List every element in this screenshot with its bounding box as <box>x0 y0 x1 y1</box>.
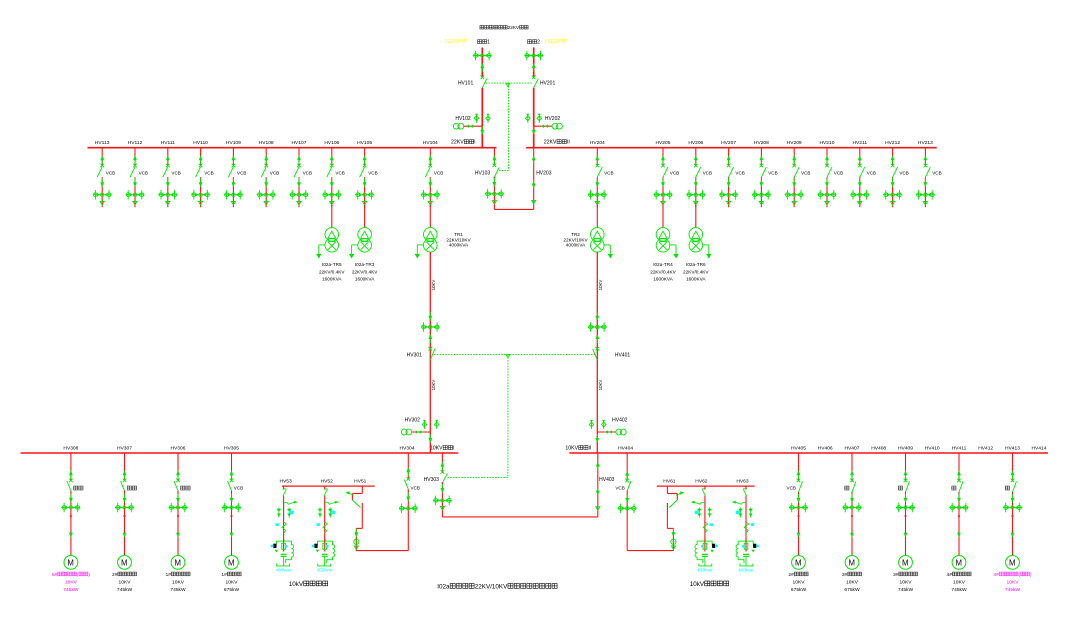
label left capacitor bank <box>289 581 328 588</box>
svg-text:VCB: VCB <box>735 171 744 176</box>
wire down to station transformer I02a-TR5 <box>331 205 333 228</box>
wire to transformer TR1 <box>429 205 431 228</box>
svg-text:HV307: HV307 <box>117 446 132 452</box>
svg-text:HV408: HV408 <box>871 446 886 452</box>
svg-text:1600KVA: 1600KVA <box>355 276 375 281</box>
svg-text:22KV/0.4KV: 22KV/0.4KV <box>319 269 345 274</box>
svg-text:TR2: TR2 <box>571 232 580 237</box>
feeder HV113 with VCB breaker <box>93 140 116 207</box>
svg-text:10kV: 10kV <box>690 581 705 588</box>
svg-text:4#: 4# <box>993 572 999 578</box>
svg-text:10KV: 10KV <box>598 280 603 291</box>
svg-text:HV105: HV105 <box>357 140 372 146</box>
open indicator X HV301 <box>429 347 433 351</box>
svg-text:HV208: HV208 <box>754 140 769 146</box>
svg-text:4000KVA: 4000KVA <box>566 243 586 248</box>
svg-text:HV113: HV113 <box>95 140 110 146</box>
wire: green dashed drop to HV303 <box>507 354 509 477</box>
svg-text:VCB: VCB <box>270 171 279 176</box>
svg-text:10KV: 10KV <box>65 579 78 585</box>
svg-text:VCB: VCB <box>899 171 908 176</box>
CT metering set HV302 <box>401 429 430 435</box>
svg-text:II: II <box>567 140 570 146</box>
svg-text:VCB: VCB <box>106 171 115 176</box>
svg-text:HV306: HV306 <box>171 446 186 452</box>
feeder HV105 with VCB breaker <box>355 140 378 207</box>
svg-text:HV410: HV410 <box>925 446 940 452</box>
svg-text:HV61: HV61 <box>663 478 676 484</box>
transformer I02a-TR4 22KV/0.4KV 1600KVA <box>650 228 678 282</box>
svg-text:VCB: VCB <box>787 486 796 491</box>
open indicator X HV401 <box>596 347 600 351</box>
svg-text:I02a-TR4: I02a-TR4 <box>653 262 673 267</box>
wire: HV304 run to left capacitor bank <box>356 550 408 552</box>
voltage indicators HV302 <box>422 420 427 429</box>
breaker HV301 <box>430 349 435 360</box>
svg-text:VCB: VCB <box>867 171 876 176</box>
svg-text:400kvar: 400kvar <box>697 568 713 573</box>
svg-text:22KV: 22KV <box>451 140 464 146</box>
22KV bus I <box>88 147 497 149</box>
svg-text:HV412: HV412 <box>978 446 993 452</box>
svg-text:745kW: 745kW <box>63 587 79 593</box>
svg-text:HV103: HV103 <box>475 171 491 177</box>
svg-text:VCB: VCB <box>204 171 213 176</box>
svg-text:HV406: HV406 <box>818 446 833 452</box>
svg-text:): ) <box>1030 572 1032 578</box>
down arrow above 10KV bus HV302 column <box>428 434 432 443</box>
disconnect cross on TR2 secondary <box>588 322 607 332</box>
svg-text:HV62: HV62 <box>695 478 708 484</box>
wire to transformer TR2 <box>596 205 598 228</box>
22KV bus II <box>526 147 937 149</box>
svg-text:I02a-TR5: I02a-TR5 <box>322 262 342 267</box>
svg-text:1#: 1# <box>165 572 171 578</box>
CT metering set HV202 <box>534 123 563 129</box>
svg-text:HV111: HV111 <box>161 140 176 146</box>
svg-text:HV411: HV411 <box>952 446 967 452</box>
svg-text:10KV: 10KV <box>431 280 436 291</box>
feeder HV206 with VCB breaker <box>686 140 712 207</box>
feeder HV111 with VCB breaker <box>158 140 181 207</box>
wire down to station transformer I02a-TR3 <box>364 205 366 228</box>
svg-text:HV109: HV109 <box>226 140 241 146</box>
svg-text:10KV: 10KV <box>172 579 185 585</box>
svg-text:22KV/10KV: 22KV/10KV <box>446 237 471 242</box>
svg-text:VCB: VCB <box>237 171 246 176</box>
svg-text:19200KW: 19200KW <box>444 39 467 45</box>
svg-text:3#: 3# <box>893 572 899 578</box>
down arrow above cross TR1 secondary <box>428 312 432 321</box>
motor feeder HV405 <box>787 446 809 594</box>
svg-text:10KV: 10KV <box>565 446 578 452</box>
svg-text:I02a-TR6: I02a-TR6 <box>686 262 706 267</box>
up arrow incoming HV101 <box>480 63 484 72</box>
title: incoming 22KV cable note <box>480 25 528 30</box>
svg-text:HV206: HV206 <box>688 140 703 146</box>
CT metering set HV402 <box>597 429 626 435</box>
wire: green dashed drop to HV103 <box>508 83 510 170</box>
PT branch HV61 <box>663 478 684 550</box>
svg-text:HV414: HV414 <box>1032 446 1047 452</box>
svg-text:2#: 2# <box>112 572 118 578</box>
svg-text:5#: 5# <box>52 572 58 578</box>
svg-text:400kvar: 400kvar <box>317 568 333 573</box>
svg-text:17200KW: 17200KW <box>544 39 567 45</box>
voltage indicators HV402 <box>589 420 594 429</box>
label 22KV bus I <box>451 140 476 146</box>
svg-text:HV104: HV104 <box>423 140 438 146</box>
motor feeder HV411 <box>946 446 971 594</box>
motor feeder HV305 <box>221 446 243 594</box>
svg-text:HV213: HV213 <box>918 140 933 146</box>
svg-text:VCB: VCB <box>171 171 180 176</box>
breaker feeder HV103 (22KV bus tie) <box>475 148 504 210</box>
transformer I02a-TR3 22KV/0.4KV 1600KVA <box>349 228 378 282</box>
motor feeder HV407 <box>842 446 862 594</box>
svg-text:22KV/0.4KV: 22KV/0.4KV <box>683 269 709 274</box>
svg-text:HV403: HV403 <box>599 477 615 483</box>
voltage indicators HV202 <box>526 114 531 123</box>
svg-text:2#: 2# <box>788 572 794 578</box>
svg-text:10KV: 10KV <box>846 579 859 585</box>
feeder HV210 with VCB breaker <box>818 140 844 207</box>
svg-text:10KV: 10KV <box>598 380 603 391</box>
svg-text:10KV: 10KV <box>953 579 966 585</box>
svg-text:I02a: I02a <box>437 583 450 590</box>
feeder HV108 with VCB breaker <box>257 140 280 207</box>
capacitor branch HV63 <box>732 486 759 566</box>
svg-text:HV211: HV211 <box>853 140 868 146</box>
svg-text:HV303: HV303 <box>424 477 440 483</box>
label: cable 1 <box>478 40 491 46</box>
svg-text:HV413: HV413 <box>1005 446 1020 452</box>
wire: incoming feeder HV101 red riser <box>481 48 483 77</box>
svg-text:675kW: 675kW <box>224 587 240 593</box>
svg-text:22KV/10KV: 22KV/10KV <box>563 237 588 242</box>
svg-text:VCB: VCB <box>615 486 624 491</box>
svg-text:1: 1 <box>487 40 490 46</box>
svg-text:745kW: 745kW <box>951 587 967 593</box>
up arrow incoming HV201 <box>532 63 536 72</box>
svg-text:HV201: HV201 <box>540 80 556 86</box>
svg-text:I02a-TR3: I02a-TR3 <box>355 262 375 267</box>
svg-text:22KV/0.4KV: 22KV/0.4KV <box>352 269 378 274</box>
wire down to station transformer I02a-TR4 <box>662 205 664 228</box>
breaker feeder HV404 (capacitor bank supply) <box>615 446 636 551</box>
feeder HV213 with VCB breaker <box>916 140 942 207</box>
feeder HV205 with VCB breaker <box>654 140 680 207</box>
svg-text:HV102: HV102 <box>455 116 471 122</box>
feeder HV110 with VCB breaker <box>191 140 214 207</box>
svg-text:745kW: 745kW <box>170 587 186 593</box>
svg-text:1#: 1# <box>221 572 227 578</box>
svg-text:1600KVA: 1600KVA <box>653 276 673 281</box>
down arrow above cross TR2 secondary <box>595 312 599 321</box>
svg-text:1600KVA: 1600KVA <box>686 276 706 281</box>
breaker HV101 <box>482 79 487 88</box>
breaker feeder HV304 (capacitor bank supply) <box>399 446 420 551</box>
disconnect riser HV203 <box>532 148 552 210</box>
open indicator X HV101 <box>481 76 485 80</box>
svg-text:HV209: HV209 <box>787 140 802 146</box>
feeder HV109 with VCB breaker <box>224 140 247 207</box>
svg-text:HV51: HV51 <box>354 478 367 484</box>
svg-text:I: I <box>474 140 475 146</box>
svg-text:HV63: HV63 <box>736 478 749 484</box>
svg-text:HV409: HV409 <box>898 446 913 452</box>
svg-text:675kW: 675kW <box>791 587 807 593</box>
svg-text:(: ( <box>1018 572 1020 578</box>
svg-text:22KV: 22KV <box>508 25 520 30</box>
svg-text:HV112: HV112 <box>128 140 143 146</box>
svg-text:22KV/10KV: 22KV/10KV <box>475 583 508 590</box>
svg-text:HV53: HV53 <box>279 478 292 484</box>
svg-text:4#: 4# <box>946 572 952 578</box>
capacitor bank sub-bus left <box>282 485 375 487</box>
svg-text:I: I <box>453 446 454 452</box>
feeder HV208 with VCB breaker <box>752 140 778 207</box>
svg-text:HV107: HV107 <box>292 140 307 146</box>
svg-text:II: II <box>589 446 592 452</box>
label 10KV bus II <box>565 446 591 452</box>
svg-text:400kvar: 400kvar <box>276 568 292 573</box>
svg-text:HV106: HV106 <box>324 140 339 146</box>
svg-text:HV203: HV203 <box>536 171 552 177</box>
svg-text:VCB: VCB <box>411 486 420 491</box>
wire TR1 secondary 10KV down to 10KV bus <box>429 252 431 453</box>
svg-text:HV110: HV110 <box>193 140 208 146</box>
svg-text:VCB: VCB <box>801 171 810 176</box>
svg-text:VCB: VCB <box>768 171 777 176</box>
svg-text:TR1: TR1 <box>454 232 463 237</box>
svg-text:HV207: HV207 <box>721 140 736 146</box>
wire: tie bottom run HV303 to HV403 <box>442 516 597 518</box>
feeder HV204 (main transformer TR2) <box>588 140 614 207</box>
capacitor branch HV53 <box>271 486 298 566</box>
feeder HV211 with VCB breaker <box>850 140 876 207</box>
svg-text:VCB: VCB <box>303 171 312 176</box>
svg-text:10kV: 10kV <box>289 581 304 588</box>
motor feeder HV308 <box>52 446 90 594</box>
svg-text:HV407: HV407 <box>845 446 860 452</box>
voltage indicators HV102 <box>474 114 479 123</box>
CT metering set HV102 <box>453 123 482 129</box>
svg-text:10KV: 10KV <box>431 380 436 391</box>
svg-text:10KV: 10KV <box>900 579 913 585</box>
feeder HV107 with VCB breaker <box>290 140 313 207</box>
down arrow above 10KV bus HV402 column <box>595 434 599 443</box>
motor feeder HV306 <box>165 446 190 594</box>
feeder HV106 with VCB breaker <box>322 140 345 207</box>
motor feeder HV409 <box>893 446 918 594</box>
feeder HV104 (main transformer TR1) <box>421 140 444 207</box>
svg-text:VCB: VCB <box>834 171 843 176</box>
node marker: triangle on top tie <box>506 83 510 86</box>
svg-text:3#: 3# <box>842 572 848 578</box>
label 22KV bus II <box>544 140 570 146</box>
up arrow TR2 secondary <box>595 334 599 343</box>
breaker HV201 <box>534 79 539 88</box>
svg-text:HV108: HV108 <box>259 140 274 146</box>
wire TR2 secondary 10KV down to 10KV bus <box>596 252 598 453</box>
svg-text:VCB: VCB <box>604 171 613 176</box>
main transformer TR1 22KV/10KV 4000KVA <box>415 228 472 259</box>
PT branch HV51 <box>345 478 366 550</box>
label 10KV bus I <box>430 446 455 452</box>
feeder HV112 with VCB breaker <box>126 140 149 207</box>
feeder HV207 with VCB breaker <box>719 140 745 207</box>
10KV bus II <box>569 452 1048 454</box>
svg-text:HV302: HV302 <box>405 418 421 424</box>
disconnect cross on incoming HV101 <box>473 51 492 61</box>
svg-text:10KV: 10KV <box>226 579 239 585</box>
svg-text:1600KVA: 1600KVA <box>322 276 342 281</box>
svg-text:HV405: HV405 <box>791 446 806 452</box>
svg-text:10KV: 10KV <box>1007 579 1020 585</box>
svg-text:745kW: 745kW <box>117 587 133 593</box>
svg-text:VCB: VCB <box>139 171 148 176</box>
svg-text:VCB: VCB <box>670 171 679 176</box>
transformer I02a-TR6 22KV/0.4KV 1600KVA <box>683 228 711 282</box>
feeder HV209 with VCB breaker <box>785 140 811 207</box>
svg-text:2: 2 <box>537 40 540 46</box>
capacitor branch HV62 <box>691 486 718 566</box>
svg-text:HV204: HV204 <box>590 140 605 146</box>
svg-text:22KV: 22KV <box>544 140 557 146</box>
wire: HV404 run to right capacitor bank <box>627 550 673 552</box>
svg-text:): ) <box>88 572 90 578</box>
svg-text:HV205: HV205 <box>656 140 671 146</box>
svg-text:VCB: VCB <box>434 171 443 176</box>
svg-text:HV52: HV52 <box>321 478 334 484</box>
motor feeder HV307 <box>112 446 137 594</box>
motor feeder HV413 <box>993 446 1031 594</box>
label right capacitor bank <box>690 581 729 588</box>
label: cable 2 <box>528 40 541 46</box>
svg-text:HV212: HV212 <box>885 140 900 146</box>
transformer I02a-TR5 22KV/0.4KV 1600KVA <box>316 228 345 282</box>
svg-text:VCB: VCB <box>368 171 377 176</box>
svg-text:HV305: HV305 <box>224 446 239 452</box>
disconnect riser HV403 <box>596 453 615 517</box>
10KV bus I <box>21 452 459 454</box>
svg-text:HV210: HV210 <box>820 140 835 146</box>
svg-text:HV202: HV202 <box>545 116 561 122</box>
svg-text:VCB: VCB <box>234 486 243 491</box>
svg-text:VCB: VCB <box>335 171 344 176</box>
drawing title <box>437 583 557 590</box>
capacitor bank sub-bus right <box>657 485 755 487</box>
svg-text:HV308: HV308 <box>63 446 78 452</box>
tie wire: green dashed link HV101-HV201 <box>486 82 532 84</box>
svg-text:745kW: 745kW <box>898 587 914 593</box>
svg-text:HV401: HV401 <box>615 352 631 358</box>
svg-text:4000KVA: 4000KVA <box>449 243 469 248</box>
svg-text:10KV: 10KV <box>793 579 806 585</box>
svg-text:HV402: HV402 <box>612 418 628 424</box>
svg-text:HV404: HV404 <box>618 446 633 452</box>
node marker: triangle on middle tie <box>506 355 510 358</box>
svg-text:675kW: 675kW <box>844 587 860 593</box>
disconnect cross on TR1 secondary <box>421 322 440 332</box>
open indicator X HV201 <box>532 76 536 80</box>
svg-text:745kW: 745kW <box>1005 587 1021 593</box>
svg-text:22KV/0.4KV: 22KV/0.4KV <box>650 269 676 274</box>
svg-text:400kvar: 400kvar <box>738 568 754 573</box>
svg-text:VCB: VCB <box>703 171 712 176</box>
up arrow TR1 secondary <box>428 334 432 343</box>
wire: incoming feeder HV201 red riser <box>533 48 535 77</box>
tie wire: green dashed link HV301-HV401 <box>434 353 595 355</box>
svg-text:10KV: 10KV <box>119 579 132 585</box>
down arrow above 22KV bus on HV101 <box>480 126 484 135</box>
svg-text:VCB: VCB <box>932 171 941 176</box>
svg-text:10KV: 10KV <box>430 446 443 452</box>
wire down to station transformer I02a-TR6 <box>695 205 697 228</box>
breaker HV401 <box>593 349 598 360</box>
feeder HV212 with VCB breaker <box>883 140 909 207</box>
svg-text:HV304: HV304 <box>400 446 415 452</box>
svg-text:HV301: HV301 <box>407 352 423 358</box>
svg-text:HV101: HV101 <box>458 80 474 86</box>
wire: 22KV tie bottom run HV103 to HV203 <box>494 208 533 210</box>
capacitor branch HV52 <box>312 486 339 566</box>
svg-text:(: ( <box>77 572 79 578</box>
disconnect cross on incoming HV201 <box>524 51 543 61</box>
down arrow above 22KV bus on HV201 <box>532 126 536 135</box>
main transformer TR2 22KV/10KV 4000KVA <box>563 228 613 259</box>
breaker feeder HV303 (bus tie) <box>424 453 452 517</box>
